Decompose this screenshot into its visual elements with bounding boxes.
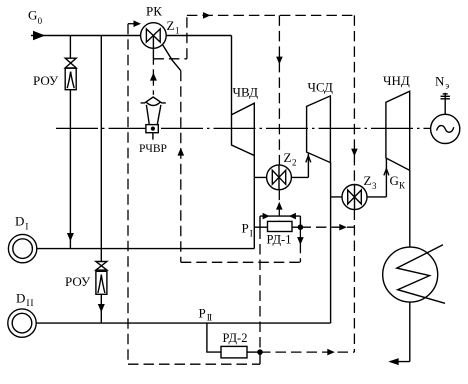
arrow left on RD-1 bar [289, 213, 296, 220]
governor RChVR chevron [141, 97, 166, 103]
label RD-2 [223, 331, 248, 345]
dashed RD-1 output to Z3 line [300, 226, 354, 228]
dashed bottom box horizontal [128, 363, 260, 365]
governor RChVR cup arc [146, 102, 160, 105]
governor RChVR shaft box [146, 125, 158, 133]
wire ROU-2 to DII line [100, 294, 102, 323]
dashed drop to Z2 [278, 15, 280, 165]
arrow chevron into ChSD [306, 156, 311, 163]
regulator RD-2 box [221, 346, 247, 358]
dashed RD-1 left hook down [259, 229, 261, 353]
svg-text:D: D [16, 291, 25, 306]
generator N circle [431, 114, 460, 143]
svg-text:Z: Z [284, 150, 292, 165]
label Z1 [167, 18, 180, 36]
label P_I [242, 221, 253, 239]
arrow dashed into RK [134, 20, 142, 27]
generator sine wave [437, 126, 454, 133]
wire node to bottom corner [259, 352, 261, 364]
label DI [15, 214, 28, 232]
label ROU-1 [33, 73, 59, 88]
regulator RD-1 feedback bar [260, 215, 300, 217]
wire condensate down [409, 302, 411, 362]
governor RChVR stem arrow from RK [152, 59, 154, 95]
label RChVR [139, 143, 167, 155]
dashed Z2 to RD-1 link [278, 190, 280, 222]
arrow up on Z1 feedback [178, 148, 185, 156]
label RD-1 [267, 233, 292, 247]
condenser circle [383, 247, 438, 302]
dashed Z1 feedback horizontal [181, 261, 301, 263]
wire extraction II to Z3 [331, 196, 387, 198]
valve Z3 circle [342, 185, 367, 210]
arrow down to Z3 [351, 149, 358, 157]
cooler ROU-2 box [96, 271, 107, 294]
label ROU-2 [65, 274, 91, 289]
wire P_II sense drop [207, 323, 221, 352]
svg-text:G: G [28, 8, 37, 23]
wire RD-1 output to node [292, 226, 300, 228]
wire HPT inlet downcomer [231, 36, 233, 115]
arrow down on RD-1 output [297, 237, 304, 245]
svg-text:1: 1 [175, 26, 180, 36]
label ChVD [233, 85, 259, 100]
wire RD-2 output to node [247, 351, 260, 353]
svg-text:N: N [435, 73, 445, 88]
arrow G0 inlet [33, 31, 45, 41]
svg-text:P: P [242, 221, 249, 236]
svg-text:РК: РК [146, 3, 162, 18]
governor RChVR lower stem [152, 133, 154, 140]
arrow into DII line [98, 304, 105, 312]
svg-text:РД-2: РД-2 [223, 331, 248, 345]
svg-text:ЧСД: ЧСД [308, 80, 333, 95]
svg-text:D: D [15, 214, 24, 229]
arrow right on top control line [203, 12, 211, 19]
svg-text:Z: Z [167, 18, 175, 33]
svg-text:I: I [250, 228, 253, 238]
wire ChSD exhaust down [330, 163, 332, 324]
wire extraction I to Z2 [254, 176, 308, 178]
arrow up Z2 link [276, 202, 283, 210]
svg-text:ЧНД: ЧНД [383, 73, 410, 88]
turbine section ChVD [232, 103, 255, 155]
dashed RK lower horizontal [153, 58, 187, 60]
governor RChVR funnel [146, 105, 161, 124]
svg-text:РОУ: РОУ [33, 73, 59, 88]
valve Z3 stem [354, 185, 356, 210]
svg-text:РОУ: РОУ [65, 274, 91, 289]
dashed riser to top line [186, 15, 188, 58]
label DII [16, 291, 34, 309]
dashed drop to Z3 [353, 15, 355, 184]
arrow right on RD-1 bar [263, 213, 270, 220]
label ChND [383, 73, 410, 88]
svg-text:G: G [390, 173, 399, 188]
turbine section ChND [386, 91, 410, 170]
label GK [390, 173, 407, 191]
label G0 [28, 8, 43, 26]
RD-1 feedback right drop [299, 216, 301, 227]
svg-text:ЧВД: ЧВД [233, 85, 259, 100]
svg-text:РД-1: РД-1 [267, 233, 292, 247]
valve ROU-1 bowtie [65, 58, 76, 68]
arrow condensate out [388, 358, 398, 365]
svg-text:э: э [445, 81, 449, 91]
node RD-2 output junction [257, 349, 263, 355]
valve Z2 bowtie [272, 170, 285, 184]
arrow down to Z2 [276, 57, 283, 65]
wire ROU-2 branch [100, 36, 102, 262]
valve Z3 bowtie [348, 190, 362, 204]
wire P_I sense into RD-1 [254, 226, 267, 228]
wire ROU-1 branch [69, 36, 71, 59]
cooler ROU-1 box [65, 68, 76, 90]
arrow up to RK [150, 73, 157, 81]
wire condensate left [390, 361, 410, 363]
dashed Z1 feedback vertical [180, 71, 182, 263]
valve ROU-2 bowtie [96, 262, 107, 271]
arrow into DI line [67, 233, 74, 241]
svg-text:I: I [25, 221, 28, 231]
shaft dash-dot line [56, 127, 430, 129]
node RD-1 output junction [298, 224, 304, 230]
label Z2 [284, 150, 297, 168]
arrow right RD-2 to Z3 [327, 349, 335, 356]
wire ChND inlet riser GK [385, 158, 387, 197]
label Z3 [364, 173, 378, 191]
turbine section ChSD [307, 96, 331, 163]
dashed RD-1 down output [299, 227, 301, 262]
regulator RD-1 box [268, 221, 293, 231]
wire ROU-1 to DI line [69, 90, 71, 249]
svg-text:2: 2 [292, 158, 297, 168]
label RK [146, 3, 162, 18]
valve Z2 stem [278, 165, 280, 190]
generator terminal stem [444, 93, 446, 115]
wire DI supply line [37, 248, 254, 250]
condenser zigzag [397, 245, 445, 303]
generator terminal bars [443, 93, 448, 95]
label P_II [199, 305, 212, 323]
label Ne [435, 73, 449, 90]
dashed arrow line into RK [128, 23, 134, 25]
label ChSD [308, 80, 333, 95]
consumer DI circle [8, 234, 36, 262]
dashed RD-2 output to Z3 line [260, 351, 354, 353]
svg-text:P: P [199, 305, 206, 320]
wire main steam header G0 [31, 35, 232, 37]
valve Z2 circle [267, 165, 292, 190]
consumer DII circle [8, 309, 36, 337]
wire ChND exhaust to condenser [409, 170, 411, 247]
svg-text:3: 3 [372, 181, 377, 191]
svg-text:0: 0 [38, 16, 43, 26]
svg-text:II: II [207, 314, 212, 324]
RD-1 feedback left hook [259, 216, 261, 228]
dashed Z3 stem down [353, 210, 355, 353]
wire ChSD inlet riser [307, 153, 309, 178]
valve RK circle [141, 23, 167, 49]
dashed left box vertical [127, 24, 129, 365]
wire DII supply line [36, 322, 330, 324]
dashed top control line [187, 14, 355, 16]
arrow chevron into ChND [384, 169, 389, 176]
svg-text:Z: Z [364, 173, 372, 188]
valve RK stem [152, 36, 154, 59]
governor RChVR pivot dot [151, 127, 155, 131]
svg-text:К: К [399, 181, 406, 191]
nozzle inside ROU-2 [98, 275, 105, 293]
wire ChVD exhaust down [253, 156, 255, 249]
svg-text:II: II [26, 299, 34, 309]
arrow right RD-1 to Z3 [339, 224, 347, 231]
svg-text:РЧВР: РЧВР [139, 143, 167, 155]
nozzle inside ROU-1 [67, 72, 74, 89]
linkage Z1 diagonal [163, 45, 181, 71]
valve RK bowtie [146, 29, 160, 42]
